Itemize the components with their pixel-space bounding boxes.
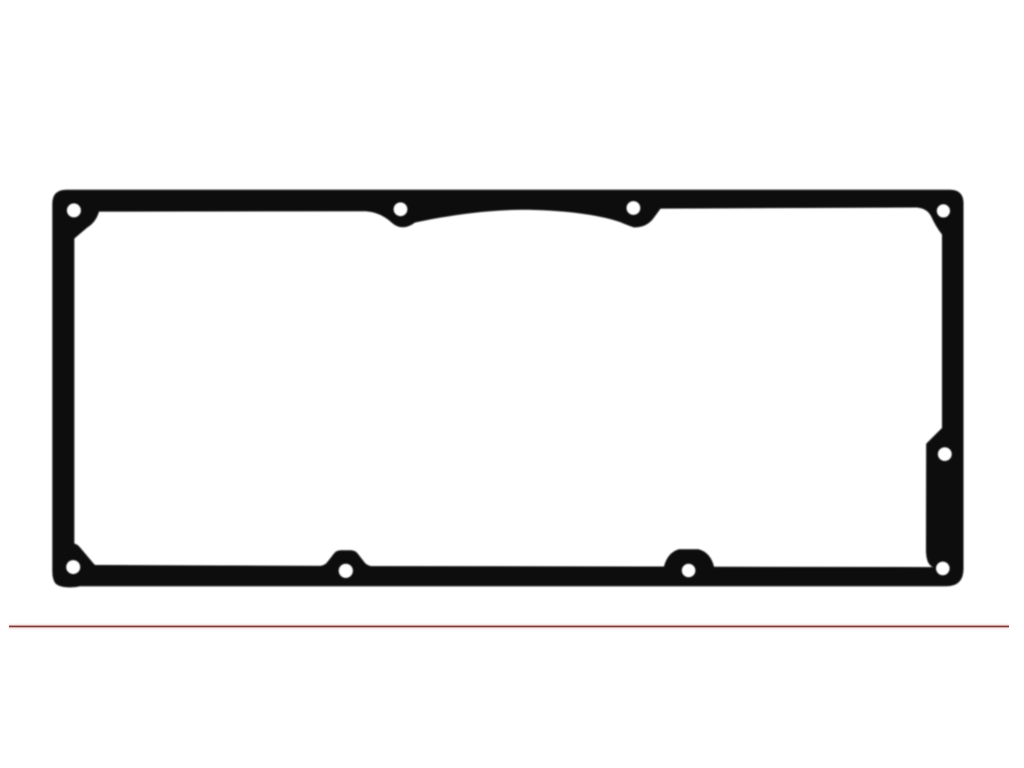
bolt hole bottom 2: [682, 564, 696, 578]
red divider line: [9, 626, 1009, 628]
bolt hole top-left: [67, 203, 81, 217]
bolt hole top 1: [394, 202, 408, 216]
bolt hole right tab: [938, 447, 952, 461]
red divider line glow: [9, 624, 1009, 629]
bolt hole bottom 1: [339, 564, 353, 578]
bolt hole top-right: [937, 204, 950, 217]
bolt hole bottom-left: [66, 560, 80, 574]
bolt hole top 2: [627, 201, 641, 215]
gasket body (valve cover gasket outline with bolt holes): [52, 190, 963, 588]
bolt hole bottom-right: [936, 562, 950, 576]
